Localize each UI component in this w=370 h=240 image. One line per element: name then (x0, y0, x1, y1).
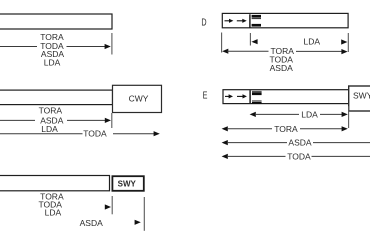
svg-text:E: E (203, 89, 208, 100)
svg-text:LDA: LDA (301, 110, 318, 120)
threshold stripes (E) (252, 91, 262, 104)
threshold stripes (D) (252, 15, 261, 28)
svg-text:SWY: SWY (118, 180, 137, 189)
wire LDA-right (E) (320, 113, 343, 115)
wire LDA/TODA-left (B) (0, 133, 83, 135)
arrowhead LDA-right (E) (342, 112, 348, 117)
tick runway-end (C) (111, 196, 113, 214)
arrowhead LDA-left (E) (250, 112, 256, 117)
displaced arrow 1 (D) (225, 20, 231, 22)
tick stopway-start (E) (348, 106, 350, 128)
tick runway-start (D) (221, 33, 223, 53)
tick runway-end (B) (111, 113, 113, 128)
wire TODA-right (E) (312, 155, 370, 157)
arrowhead TODA-left (E) (222, 154, 228, 159)
arrowhead TORA-left (D) (222, 49, 228, 54)
displaced arrow 1 (E) (225, 95, 230, 97)
svg-text:ASDA: ASDA (270, 63, 293, 73)
tick end (A) (111, 33, 113, 55)
stopway box SWY (C) (112, 176, 143, 191)
svg-text:ASDA: ASDA (80, 218, 103, 228)
svg-text:CWY: CWY (129, 94, 149, 104)
svg-text:LDA: LDA (44, 58, 61, 68)
svg-text:TORA: TORA (274, 124, 298, 134)
arrowhead TODA (C) (105, 204, 111, 209)
threshold line (D) (249, 14, 251, 27)
svg-text:LDA: LDA (304, 36, 321, 46)
wire ASDA-right (B) (67, 119, 105, 121)
arrowhead TODA (A) (105, 44, 111, 49)
wire TORA-left (D) (227, 50, 269, 52)
runway B (0, 90, 113, 105)
wire TODA-right (B) (113, 133, 154, 135)
tick stopway-end (C) (143, 197, 145, 231)
wire TODA-right (A) (67, 46, 106, 48)
svg-text:D: D (201, 16, 206, 27)
displaced arrow 2 (D) (237, 20, 243, 22)
wire ASDA-left (E) (227, 142, 287, 144)
runway D (222, 13, 348, 27)
clearway box CWY (113, 85, 162, 112)
wire LDA-left (E) (255, 113, 299, 115)
wire TODA-left (E) (227, 155, 286, 157)
stopway box SWY (E) (349, 86, 370, 111)
arrowhead TODA (B) (154, 131, 160, 136)
threshold line (E) (249, 90, 251, 103)
runway A (0, 14, 112, 29)
arrowhead TORA-right (E) (342, 126, 348, 131)
runway C (0, 176, 110, 191)
wire TODA-left (A) (0, 46, 37, 48)
svg-text:ASDA: ASDA (288, 138, 311, 148)
svg-text:TORA: TORA (39, 106, 63, 116)
arrowhead ASDA-left (E) (222, 140, 228, 145)
arrowhead TORA-right (D) (341, 49, 347, 54)
arrowhead ASDA (C) (135, 220, 141, 225)
tick runway-end (D) (347, 33, 349, 52)
arrowhead ASDA (B) (105, 118, 111, 123)
arrowhead LDA-right (D) (341, 39, 347, 44)
displaced arrow 2 (E) (237, 95, 243, 97)
svg-text:SWY: SWY (353, 91, 370, 101)
svg-text:LDA: LDA (41, 124, 58, 134)
arrowhead LDA-left (D) (251, 39, 257, 44)
wire ASDA-left (B) (0, 119, 35, 121)
svg-text:TODA: TODA (287, 152, 311, 162)
svg-text:LDA: LDA (45, 207, 62, 217)
arrowhead TORA-left (E) (222, 126, 228, 131)
wire TORA-right (D) (296, 50, 342, 52)
runway E (223, 90, 349, 104)
wire TORA-left (E) (227, 128, 272, 130)
tick threshold (D) (249, 33, 251, 46)
wire ASDA-right (E) (313, 142, 370, 144)
wire TORA-right (E) (300, 128, 343, 130)
svg-text:TODA: TODA (83, 129, 107, 139)
